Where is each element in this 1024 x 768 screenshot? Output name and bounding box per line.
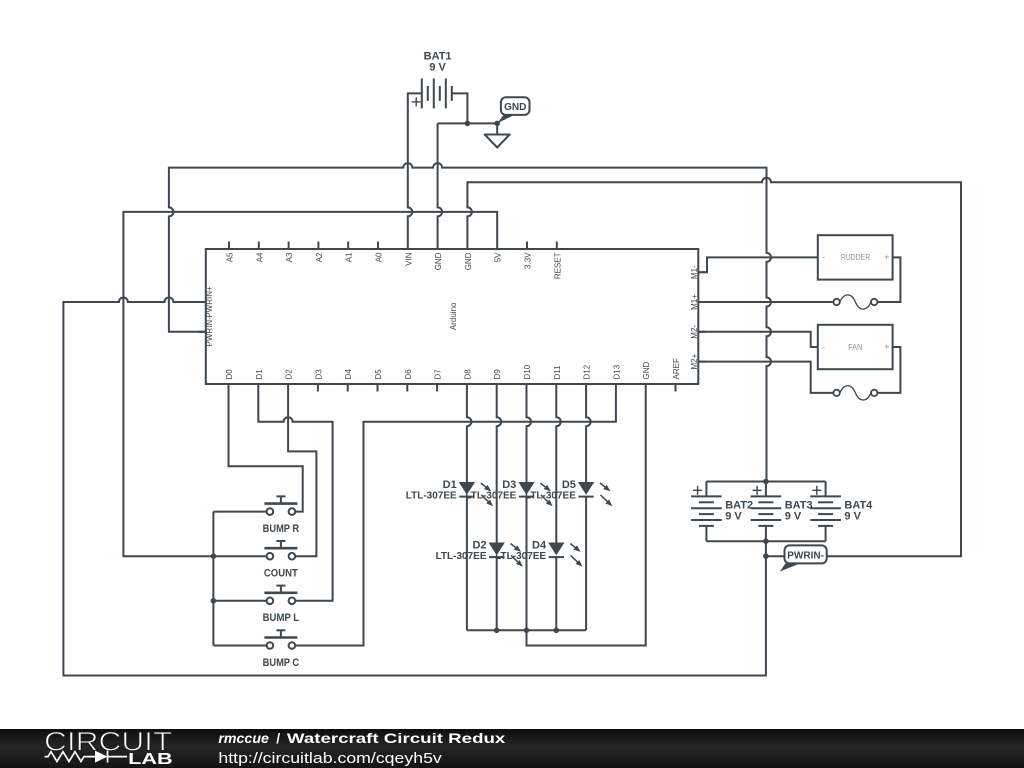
wire FAN+ to fuse F2 <box>877 347 900 393</box>
wire BAT1 negative lead <box>452 93 468 123</box>
svg-text:D8: D8 <box>463 369 472 380</box>
svg-text:D4: D4 <box>344 369 353 380</box>
svg-text:A1: A1 <box>345 252 354 262</box>
wire BUMP L left contact <box>213 600 266 602</box>
wire 5V pin to switches common <box>123 212 497 556</box>
footer banner <box>0 729 1024 768</box>
svg-text:PWRIN-: PWRIN- <box>787 551 824 562</box>
wire ground row under BAT1 <box>438 122 498 124</box>
svg-text:LAB: LAB <box>128 751 173 768</box>
node LED bus D2 <box>494 628 500 634</box>
svg-text:D2: D2 <box>472 540 486 552</box>
svg-text:D9: D9 <box>493 369 502 380</box>
node GND attach point <box>494 121 500 127</box>
motor FAN M2 <box>818 325 893 369</box>
svg-text:RESET: RESET <box>553 252 562 279</box>
svg-text:D4: D4 <box>532 540 547 552</box>
wire D1 to BUMP L <box>258 392 332 601</box>
svg-text:D3: D3 <box>314 369 323 380</box>
svg-text:M1+: M1+ <box>690 294 699 310</box>
wire M1- to RUDDER <box>698 257 818 272</box>
svg-text:9 V: 9 V <box>785 511 802 523</box>
svg-text:rmccue: rmccue <box>218 730 269 746</box>
svg-text:D0: D0 <box>225 369 234 380</box>
wire GND2 pin to right loop to PWRIN- node <box>467 178 961 556</box>
pushbutton COUNT <box>264 541 298 580</box>
svg-text:LTL-307EE: LTL-307EE <box>495 551 546 562</box>
svg-text:3.3V: 3.3V <box>524 252 533 269</box>
wire PWRIN- pin to outer loop to battery negative <box>63 298 766 676</box>
svg-text:D11: D11 <box>553 365 562 380</box>
wire D11 to LED D4 anode <box>556 392 561 543</box>
svg-text:D5: D5 <box>374 369 383 380</box>
led D4 LTL-307EE <box>495 540 582 567</box>
wire D8 to LED D1 anode <box>467 392 472 483</box>
wire D9 to LED D2 anode <box>497 392 502 543</box>
svg-text:COUNT: COUNT <box>264 568 298 580</box>
svg-text:VIN: VIN <box>404 252 413 266</box>
svg-text:9 V: 9 V <box>429 62 446 74</box>
svg-text:A4: A4 <box>255 252 264 262</box>
svg-text:D3: D3 <box>502 479 516 491</box>
node LED bus D3 <box>524 628 530 634</box>
svg-text:+: + <box>884 252 889 262</box>
wire battery bank bottom bus <box>706 540 825 542</box>
wire M1+ to fuse F1 <box>698 301 833 303</box>
flag PWRIN- <box>780 545 827 571</box>
battery BAT4 <box>810 482 873 542</box>
circuitlab logo <box>44 726 173 768</box>
battery BAT1 <box>412 51 452 109</box>
node switches common at COUNT <box>211 553 217 559</box>
svg-text:D5: D5 <box>562 479 576 491</box>
motor RUDDER M1 <box>818 235 893 279</box>
svg-text:M2+: M2+ <box>690 353 699 369</box>
svg-text:9 V: 9 V <box>725 511 742 523</box>
svg-text:-: - <box>822 342 825 352</box>
svg-text:A2: A2 <box>315 252 324 262</box>
svg-text:AREF: AREF <box>672 358 681 379</box>
svg-text:BUMP L: BUMP L <box>263 612 300 624</box>
svg-text:D1: D1 <box>255 369 264 380</box>
svg-text:/: / <box>276 730 280 746</box>
svg-text:LTL-307EE: LTL-307EE <box>525 491 576 502</box>
wire BUMP R left contact <box>213 511 266 513</box>
svg-text:D6: D6 <box>404 369 413 380</box>
node battery bank top <box>763 479 769 485</box>
svg-text:D13: D13 <box>612 364 621 379</box>
svg-text:LTL-307EE: LTL-307EE <box>465 491 516 502</box>
pushbutton BUMP R <box>263 496 300 535</box>
svg-text:5V: 5V <box>494 252 503 262</box>
svg-text:M2-: M2- <box>690 325 699 339</box>
wire switches left common vertical <box>212 512 214 646</box>
wire LED D2 cathode <box>496 557 498 630</box>
svg-text:A5: A5 <box>226 252 235 262</box>
led D2 LTL-307EE <box>436 540 523 567</box>
wire D0 to BUMP R <box>229 392 303 512</box>
node BAT1 negative junction <box>465 121 471 127</box>
svg-text:M1-: M1- <box>690 265 699 279</box>
svg-text:RUDDER: RUDDER <box>841 253 871 262</box>
wire PWRIN+ pin to top bus to battery positive bus <box>169 163 771 481</box>
svg-text:BUMP C: BUMP C <box>263 657 300 669</box>
svg-text:D7: D7 <box>434 369 443 380</box>
svg-text:LTL-307EE: LTL-307EE <box>436 551 487 562</box>
node battery bank bottom <box>763 538 769 544</box>
svg-text:BUMP R: BUMP R <box>263 523 300 535</box>
wire LED D5 cathode <box>585 497 587 631</box>
wire battery bank top bus <box>706 481 825 483</box>
wire M2- to FAN <box>698 332 818 347</box>
svg-text:A0: A0 <box>375 252 384 262</box>
svg-text:A3: A3 <box>285 252 294 262</box>
led D3 LTL-307EE <box>465 479 552 506</box>
svg-text:GND: GND <box>642 362 651 380</box>
node switches common at BUMP L <box>211 598 217 604</box>
svg-text:http://circuitlab.com/cqeyh5v: http://circuitlab.com/cqeyh5v <box>218 751 442 767</box>
battery BAT2 <box>691 482 753 542</box>
wire LED D4 cathode <box>555 557 557 630</box>
svg-text:FAN: FAN <box>848 343 863 352</box>
svg-text:PWRIN-: PWRIN- <box>205 317 214 347</box>
wire D2 to COUNT <box>288 392 316 557</box>
wire LED D1 cathode <box>466 497 468 631</box>
svg-text:PWRIN+: PWRIN+ <box>205 286 214 318</box>
svg-text:D12: D12 <box>583 364 592 379</box>
wire M2+ to fuse F2 <box>698 362 833 393</box>
svg-text:D2: D2 <box>285 369 294 380</box>
wire GND pin to BAT1 negative node <box>438 123 443 241</box>
ground <box>485 123 510 147</box>
wire BUMP C left contact <box>213 645 266 647</box>
wire D10 to LED D3 anode <box>527 392 532 483</box>
led D5 LTL-307EE <box>525 479 612 506</box>
svg-text:9 V: 9 V <box>844 511 861 523</box>
svg-text:+: + <box>884 342 889 352</box>
svg-text:GND: GND <box>504 102 526 113</box>
wire D13 to BUMP C <box>295 392 616 646</box>
arduino U1 <box>198 242 706 392</box>
node PWRIN- net <box>763 553 769 559</box>
fuse F1 <box>833 295 877 309</box>
pushbutton BUMP C <box>263 630 300 669</box>
svg-text:Watercraft Circuit Redux: Watercraft Circuit Redux <box>287 730 506 746</box>
svg-text:GND: GND <box>434 252 443 270</box>
battery BAT3 <box>751 482 813 542</box>
svg-text:GND: GND <box>464 252 473 270</box>
wire LED cathode bus <box>467 629 586 631</box>
wire LED D3 cathode to GND pin <box>527 392 646 646</box>
pushbutton BUMP L <box>263 586 300 625</box>
wire RUDDER+ to fuse F1 <box>877 257 900 302</box>
flag GND <box>497 97 529 123</box>
svg-text:LTL-307EE: LTL-307EE <box>406 491 457 502</box>
led D1 LTL-307EE <box>406 479 493 506</box>
wire VIN to BAT1 positive <box>408 93 422 241</box>
svg-text:Arduino: Arduino <box>449 302 458 330</box>
wire D12 to LED D5 anode <box>586 392 591 483</box>
fuse F2 <box>833 386 877 400</box>
svg-text:D1: D1 <box>443 479 457 491</box>
node LED bus D4 <box>554 628 560 634</box>
svg-text:D10: D10 <box>523 364 532 379</box>
svg-text:-: - <box>822 252 825 262</box>
